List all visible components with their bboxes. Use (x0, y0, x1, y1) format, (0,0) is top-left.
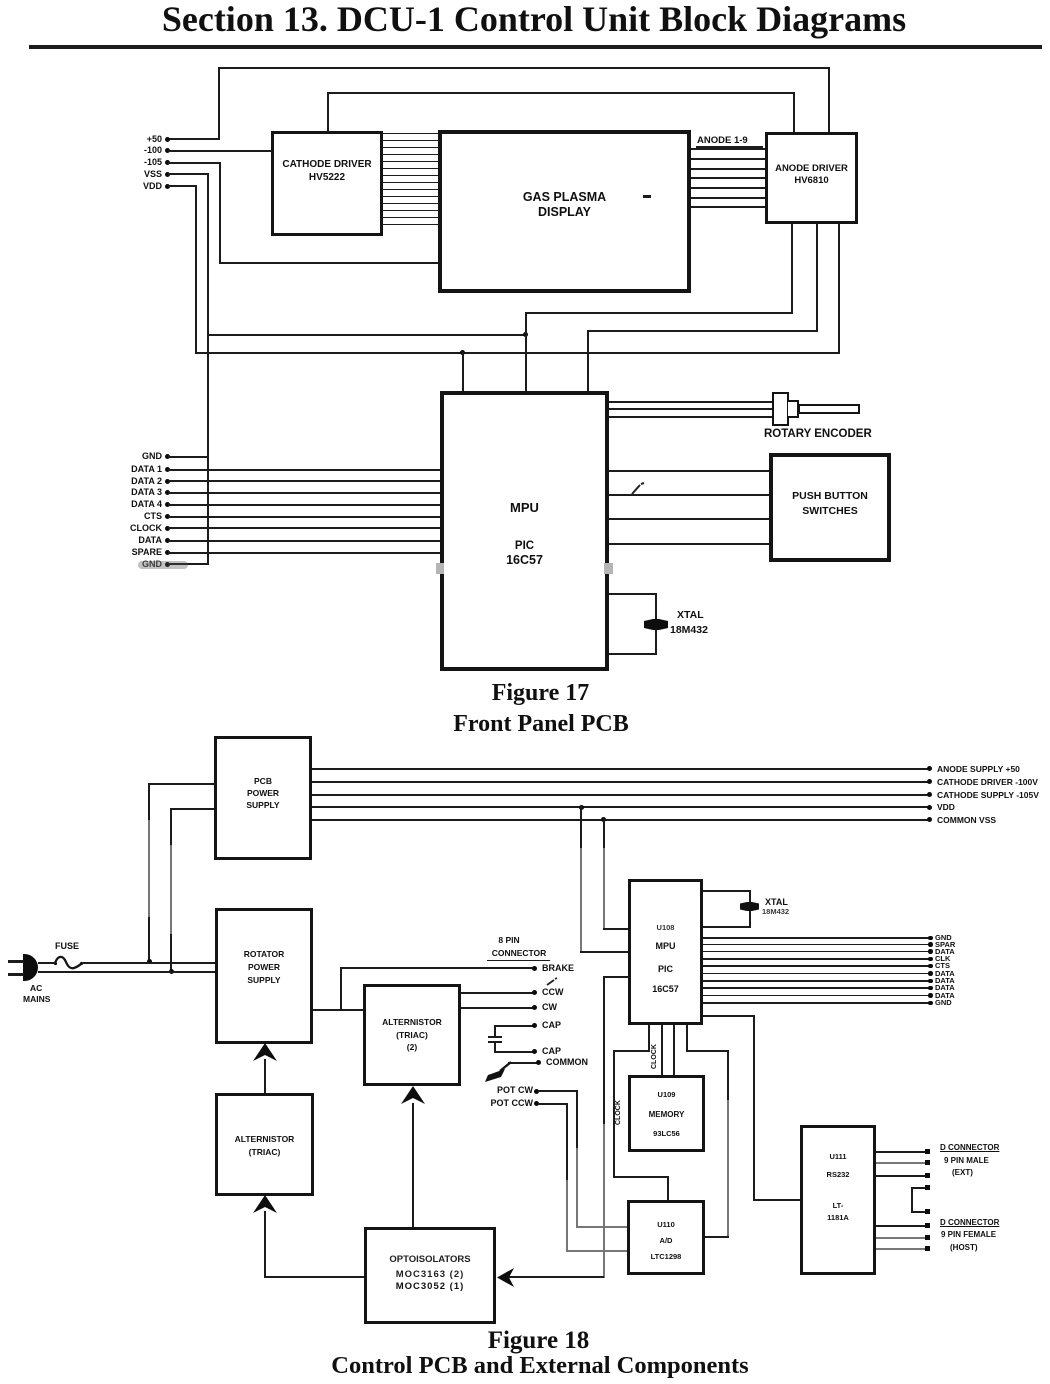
wire +50 to outer top rail (168, 138, 220, 140)
node POT CCW (491, 1099, 534, 1108)
node GND lower (165, 562, 170, 567)
smudge right of MPU (604, 563, 613, 574)
U110 A/D (627, 1200, 705, 1275)
wire -105 to display (168, 162, 221, 164)
wire BRAKE tap (340, 967, 342, 1010)
arrow line into alternistor bottom (264, 1211, 266, 1278)
wire cathode supply -105V (312, 794, 930, 796)
wire clock U108 to U110 (648, 1025, 650, 1052)
anode bus (7 lines) (691, 148, 765, 150)
node GND (165, 454, 170, 459)
wire POT CCW to U110 (566, 1103, 568, 1183)
label ANODE 1-9 (697, 136, 748, 146)
arrow opto to alternistor(2) (412, 1103, 414, 1227)
label D CONNECTOR 9 PIN MALE (EXT) (940, 1144, 999, 1152)
wire anode supply +50 (312, 768, 930, 770)
alternistor (triac) single (215, 1093, 314, 1196)
wire rotator to alternistor(2) (313, 1009, 363, 1011)
pcb power supply (214, 736, 312, 860)
wire U108 pin to opto arrow rail (603, 976, 629, 978)
junction VDD-MPU (460, 350, 465, 355)
xtal loop U108 (703, 890, 751, 892)
stray mark (546, 978, 558, 986)
wires MPU to push button switches (609, 470, 769, 472)
loopback stub (911, 1187, 929, 1189)
optoisolators (364, 1227, 496, 1324)
capacitor symbol (494, 1025, 496, 1037)
stray dash in display (643, 195, 651, 198)
caption Front Panel PCB (0, 711, 1050, 738)
node +50 (165, 137, 170, 142)
wire COMMON VSS (312, 819, 930, 821)
wire POT CW to U110 (576, 1090, 578, 1150)
node POT CW (497, 1086, 533, 1095)
U109 memory (628, 1075, 705, 1152)
wire CCW (461, 992, 534, 994)
cathode driver U-HV5222 (271, 131, 383, 236)
wire -100 to cathode driver (168, 150, 272, 152)
caption Control PCB and External Components (0, 1352, 1050, 1380)
node VDD (165, 184, 170, 189)
node VSS (165, 172, 170, 177)
arrow alternistor to rotator supply (264, 1059, 266, 1093)
node CLOCK (165, 526, 170, 531)
wire VSS drop to U108 (603, 819, 605, 850)
U111 host lines (876, 1225, 928, 1227)
wire cathode-driver top to anode-driver top (327, 92, 329, 132)
wire anode drop A to MPU (525, 312, 527, 392)
label FUSE (55, 942, 79, 951)
crystal XTAL 18M432 (644, 619, 668, 630)
wire VDD rail to anode driver (168, 185, 197, 187)
wire anode drop B to MPU (587, 330, 589, 392)
node -100 (165, 148, 170, 153)
junction VSS-MPU (523, 332, 528, 337)
xtal loop wires (609, 593, 657, 595)
caption Figure 18 (0, 1327, 1050, 1355)
title (9, 0, 1050, 40)
U111 ext lines (876, 1151, 928, 1153)
label ROTARY ENCODER (764, 429, 872, 441)
wire U108 to U111 (703, 1015, 755, 1017)
node COMMON with ground (508, 1062, 538, 1064)
wire U108 to U110 right side (686, 1025, 688, 1052)
wire VDD drop to U108 (580, 806, 582, 849)
node CAP upper (495, 1025, 534, 1027)
wires U108 to U109 memory (661, 1025, 663, 1075)
label 8 PIN CONNECTOR (478, 936, 540, 945)
label CLOCK vertical (651, 1044, 658, 1069)
stray mark (630, 482, 646, 496)
crystal XTAL 18M432 (740, 902, 759, 911)
wire pcb supply left pin 1 (148, 783, 214, 785)
AC mains plug (23, 954, 38, 981)
node CAP lower (495, 1051, 534, 1053)
alternistor (triac) (2) (363, 984, 461, 1086)
node CTS (165, 514, 170, 519)
node DATA 2 (165, 479, 170, 484)
U111 RS232 (800, 1125, 876, 1275)
node DATA 3 (165, 490, 170, 495)
node DATA 1 (165, 467, 170, 472)
caption Figure 17 (0, 680, 1050, 707)
ribbon cathode driver to display (14 lines) (382, 133, 438, 134)
rotator power supply (215, 908, 313, 1044)
wire VDD (312, 806, 930, 808)
anode driver U-HV6810 (765, 132, 858, 224)
AC wire bottom (38, 971, 215, 973)
title rule (29, 45, 1042, 49)
U108 MPU (628, 879, 703, 1025)
node SPARE (165, 550, 170, 555)
wire opto to alternistor (264, 1276, 364, 1278)
MPU PIC 16C57 (440, 391, 609, 671)
rotary encoder wires (609, 401, 775, 403)
junction VDD drop (579, 805, 584, 810)
node DATA (165, 538, 170, 543)
wire CW (461, 1007, 534, 1009)
wire MPU pin to VDD rail (462, 352, 464, 393)
gas plasma display (438, 130, 691, 293)
ground (485, 1061, 513, 1082)
wire pcb supply left pin 2 (170, 808, 214, 810)
AC wire top with fuse (38, 962, 56, 964)
wire VSS rail (168, 173, 209, 175)
rotary encoder body (772, 392, 789, 426)
label D CONNECTOR 9 PIN FEMALE (HOST) (940, 1219, 999, 1227)
smudge left of MPU (436, 563, 444, 574)
U108 right bus (10 lines) (703, 937, 930, 939)
wire into opto right with arrow (508, 1276, 604, 1278)
junction VSS drop (601, 817, 606, 822)
wire cathode driver -100V (312, 781, 930, 783)
node DATA 4 (165, 502, 170, 507)
node -105 (165, 160, 170, 165)
push button switches (769, 453, 891, 562)
